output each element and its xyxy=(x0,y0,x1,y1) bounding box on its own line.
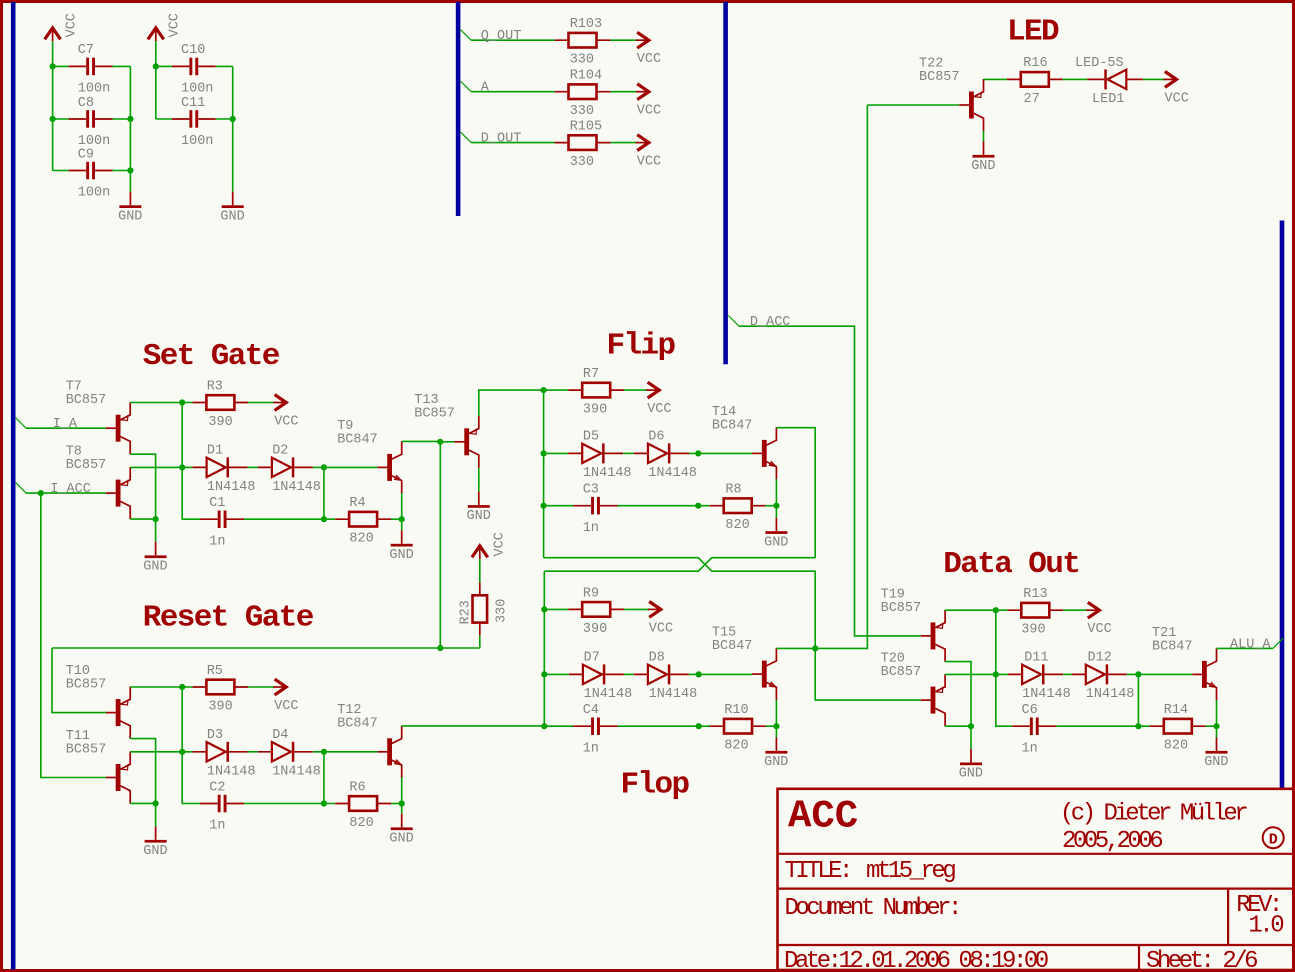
svg-text:R16: R16 xyxy=(1023,56,1047,71)
svg-text:390: 390 xyxy=(583,403,607,418)
svg-text:390: 390 xyxy=(208,700,232,715)
svg-text:D4: D4 xyxy=(272,728,288,743)
svg-text:D_OUT: D_OUT xyxy=(481,132,522,147)
svg-text:820: 820 xyxy=(349,816,373,831)
svg-text:100n: 100n xyxy=(181,134,213,149)
svg-text:R14: R14 xyxy=(1164,703,1188,718)
svg-text:820: 820 xyxy=(1164,739,1188,754)
svg-text:LED1: LED1 xyxy=(1092,92,1124,107)
svg-text:BC847: BC847 xyxy=(712,639,753,654)
svg-text:Flip: Flip xyxy=(607,328,676,363)
svg-text:C1: C1 xyxy=(209,496,225,511)
svg-text:Document Number:: Document Number: xyxy=(785,895,959,922)
svg-text:R7: R7 xyxy=(583,367,599,382)
svg-text:330: 330 xyxy=(495,599,510,623)
svg-text:R10: R10 xyxy=(724,703,748,718)
svg-text:1.0: 1.0 xyxy=(1248,912,1283,939)
svg-text:GND: GND xyxy=(764,535,788,550)
svg-text:mt15_reg: mt15_reg xyxy=(866,858,955,885)
svg-text:VCC: VCC xyxy=(1165,91,1189,106)
svg-text:VCC: VCC xyxy=(647,402,671,417)
svg-text:390: 390 xyxy=(208,415,232,430)
svg-text:Reset Gate: Reset Gate xyxy=(143,600,314,635)
svg-text:C8: C8 xyxy=(78,96,94,111)
svg-text:D7: D7 xyxy=(584,651,600,666)
svg-text:VCC: VCC xyxy=(64,13,79,37)
svg-text:VCC: VCC xyxy=(637,104,661,119)
svg-text:GND: GND xyxy=(143,560,167,575)
svg-text:Sheet: 2/6: Sheet: 2/6 xyxy=(1146,948,1257,972)
svg-text:GND: GND xyxy=(971,159,995,174)
svg-text:VCC: VCC xyxy=(167,13,182,37)
svg-text:GND: GND xyxy=(389,832,413,847)
svg-text:VCC: VCC xyxy=(637,52,661,67)
svg-text:GND: GND xyxy=(959,767,983,782)
svg-text:VCC: VCC xyxy=(637,155,661,170)
svg-text:LED-5S: LED-5S xyxy=(1075,56,1124,71)
svg-text:1n: 1n xyxy=(209,534,225,549)
svg-text:27: 27 xyxy=(1024,92,1040,107)
svg-text:1n: 1n xyxy=(1022,741,1038,756)
svg-text:BC857: BC857 xyxy=(66,678,107,693)
svg-text:I_ACC: I_ACC xyxy=(50,482,91,497)
svg-text:BC857: BC857 xyxy=(881,665,922,680)
svg-text:100n: 100n xyxy=(181,82,213,97)
svg-text:D11: D11 xyxy=(1024,651,1048,666)
svg-text:R104: R104 xyxy=(570,69,602,84)
svg-text:R105: R105 xyxy=(570,120,602,135)
svg-text:C9: C9 xyxy=(78,147,94,162)
svg-text:D1: D1 xyxy=(207,444,223,459)
svg-text:1N4148: 1N4148 xyxy=(649,687,698,702)
svg-text:Q_OUT: Q_OUT xyxy=(481,29,522,44)
svg-text:BC847: BC847 xyxy=(337,717,378,732)
svg-text:390: 390 xyxy=(1021,623,1045,638)
svg-text:I_A: I_A xyxy=(53,417,78,432)
svg-text:100n: 100n xyxy=(78,186,110,201)
svg-text:LED: LED xyxy=(1007,15,1059,50)
svg-text:R8: R8 xyxy=(725,483,741,498)
svg-text:1n: 1n xyxy=(583,521,599,536)
svg-text:R103: R103 xyxy=(570,17,602,32)
svg-text:330: 330 xyxy=(570,53,594,68)
svg-text:C10: C10 xyxy=(181,43,205,58)
svg-text:R13: R13 xyxy=(1023,587,1047,602)
svg-text:R9: R9 xyxy=(583,586,599,601)
svg-text:D3: D3 xyxy=(207,728,223,743)
svg-text:1N4148: 1N4148 xyxy=(272,765,321,780)
svg-text:VCC: VCC xyxy=(492,532,507,556)
svg-text:1N4148: 1N4148 xyxy=(207,480,256,495)
svg-text:1N4148: 1N4148 xyxy=(1086,687,1135,702)
svg-text:BC857: BC857 xyxy=(414,407,455,422)
svg-text:D5: D5 xyxy=(583,430,599,445)
svg-text:2005,2006: 2005,2006 xyxy=(1062,828,1162,855)
svg-text:A: A xyxy=(481,81,490,96)
svg-text:BC847: BC847 xyxy=(1152,639,1193,654)
svg-text:R4: R4 xyxy=(349,496,365,511)
svg-text:BC847: BC847 xyxy=(712,418,753,433)
svg-text:D: D xyxy=(1269,832,1278,849)
svg-text:BC857: BC857 xyxy=(66,458,107,473)
svg-text:390: 390 xyxy=(583,622,607,637)
svg-text:GND: GND xyxy=(220,209,244,224)
svg-text:100n: 100n xyxy=(78,82,110,97)
svg-text:820: 820 xyxy=(349,532,373,547)
svg-text:330: 330 xyxy=(570,155,594,170)
svg-text:GND: GND xyxy=(118,209,142,224)
svg-text:820: 820 xyxy=(724,739,748,754)
svg-text:820: 820 xyxy=(725,518,749,533)
svg-text:BC847: BC847 xyxy=(337,432,378,447)
svg-text:330: 330 xyxy=(570,104,594,119)
svg-text:R3: R3 xyxy=(207,380,223,395)
svg-text:ACC: ACC xyxy=(788,795,858,839)
svg-text:1n: 1n xyxy=(583,741,599,756)
svg-text:C11: C11 xyxy=(181,96,205,111)
svg-text:D12: D12 xyxy=(1088,651,1112,666)
svg-text:1N4148: 1N4148 xyxy=(272,480,321,495)
svg-text:1N4148: 1N4148 xyxy=(583,466,632,481)
svg-text:D2: D2 xyxy=(272,444,288,459)
svg-text:TITLE:: TITLE: xyxy=(785,858,850,885)
svg-text:Data Out: Data Out xyxy=(943,547,1079,582)
svg-text:D_ACC: D_ACC xyxy=(750,315,791,330)
svg-text:GND: GND xyxy=(143,844,167,859)
svg-text:(c) Dieter Müller: (c) Dieter Müller xyxy=(1060,801,1247,828)
svg-text:VCC: VCC xyxy=(274,415,298,430)
svg-text:GND: GND xyxy=(467,509,491,524)
svg-text:GND: GND xyxy=(764,755,788,770)
svg-text:1n: 1n xyxy=(209,819,225,834)
svg-text:C3: C3 xyxy=(583,483,599,498)
svg-text:VCC: VCC xyxy=(649,621,673,636)
svg-text:C7: C7 xyxy=(78,43,94,58)
svg-text:BC857: BC857 xyxy=(919,70,960,85)
svg-text:C4: C4 xyxy=(583,703,599,718)
svg-text:Set Gate: Set Gate xyxy=(143,339,280,374)
svg-text:ALU_A: ALU_A xyxy=(1230,637,1271,652)
svg-text:Date:12.01.2006 08:19:00: Date:12.01.2006 08:19:00 xyxy=(784,948,1048,972)
svg-text:Flop: Flop xyxy=(621,768,690,803)
svg-text:R23: R23 xyxy=(458,600,473,624)
svg-text:BC857: BC857 xyxy=(66,393,107,408)
svg-text:1N4148: 1N4148 xyxy=(207,765,256,780)
svg-text:R6: R6 xyxy=(349,781,365,796)
svg-text:BC857: BC857 xyxy=(66,742,107,757)
svg-text:R5: R5 xyxy=(207,664,223,679)
svg-text:VCC: VCC xyxy=(1087,622,1111,637)
svg-text:1N4148: 1N4148 xyxy=(648,466,697,481)
svg-text:1N4148: 1N4148 xyxy=(1022,687,1071,702)
svg-text:D8: D8 xyxy=(649,651,665,666)
svg-text:VCC: VCC xyxy=(274,699,298,714)
svg-text:BC857: BC857 xyxy=(881,601,922,616)
svg-text:GND: GND xyxy=(389,548,413,563)
svg-text:C6: C6 xyxy=(1022,703,1038,718)
svg-text:1N4148: 1N4148 xyxy=(584,687,633,702)
svg-text:C2: C2 xyxy=(209,780,225,795)
svg-text:D6: D6 xyxy=(648,430,664,445)
svg-text:GND: GND xyxy=(1204,755,1228,770)
